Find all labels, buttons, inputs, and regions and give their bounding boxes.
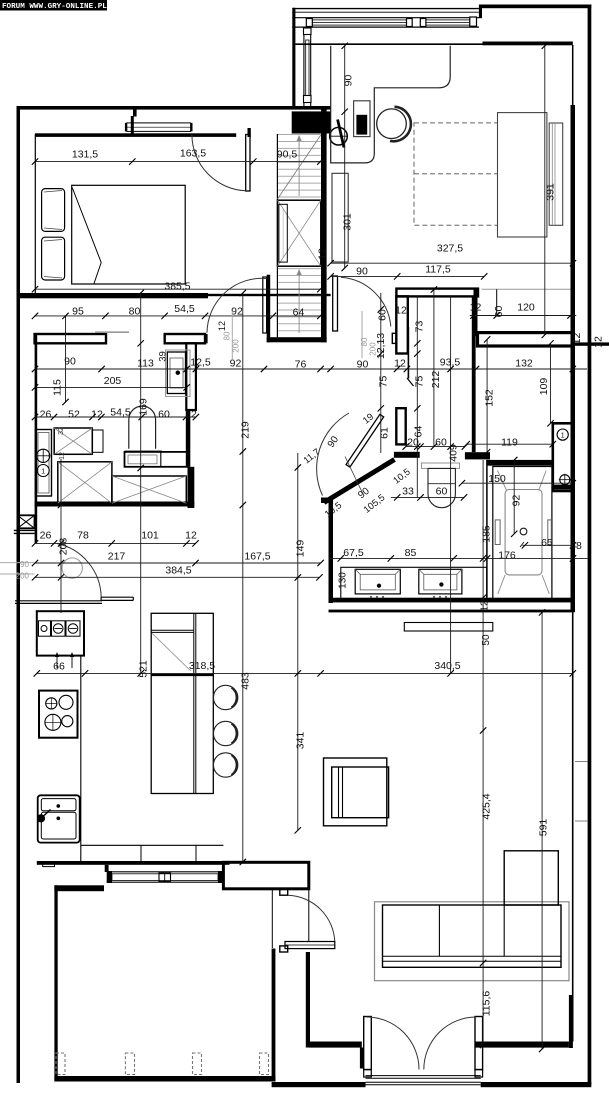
svg-text:167,5: 167,5 <box>244 551 270 563</box>
wall kitchen bottom stub <box>105 865 109 872</box>
svg-text:217: 217 <box>108 551 126 563</box>
svg-text:169: 169 <box>138 398 150 416</box>
dim v 149/341 <box>295 453 307 834</box>
wall left inner face bath <box>35 334 38 544</box>
svg-text:60: 60 <box>435 436 447 448</box>
svg-text:95: 95 <box>72 306 84 318</box>
wall terrace door jamb line A <box>271 889 273 948</box>
svg-text:101: 101 <box>141 530 159 542</box>
svg-text:54,5: 54,5 <box>110 407 131 419</box>
svg-text:64: 64 <box>293 307 305 319</box>
dim row 65 <box>522 537 577 549</box>
toilet1 <box>125 406 162 451</box>
dim row 119 <box>464 437 557 449</box>
svg-text:12: 12 <box>185 530 197 542</box>
svg-text:60: 60 <box>158 409 170 421</box>
wall bath1 top T piece <box>165 334 207 343</box>
vanity sink1 <box>355 569 400 594</box>
svg-text:54,5: 54,5 <box>174 303 195 315</box>
wall corner right inner <box>569 995 573 1048</box>
dim row 384,5 <box>32 565 323 581</box>
svg-text:200: 200 <box>232 339 241 353</box>
window living bottom sill <box>366 1076 481 1085</box>
svg-text:12: 12 <box>470 302 482 314</box>
window terrace <box>107 871 224 883</box>
wall top-right exterior <box>479 5 591 19</box>
bathtub inner <box>498 471 550 594</box>
toilet2 tank line <box>422 463 460 468</box>
wall kitchen bottom <box>37 861 230 865</box>
bath2 partition line <box>486 460 488 598</box>
title bar <box>0 0 107 11</box>
svg-text:73: 73 <box>414 321 426 333</box>
wall bathroom left <box>329 498 334 604</box>
dim v 219/483 <box>240 290 252 865</box>
wall stairs bottom <box>267 337 327 342</box>
armchair outer <box>324 758 387 826</box>
door wc leaf ajar <box>407 327 414 386</box>
wall line x496 <box>496 289 498 315</box>
shelf line above vanity <box>95 331 129 333</box>
dim row 95-80-54,5-92-64 <box>32 303 324 319</box>
dim row 327,5 <box>327 243 576 267</box>
desk chair <box>377 107 411 142</box>
wc1 cabinet <box>36 430 52 497</box>
fridge knob lines <box>55 628 77 630</box>
svg-text:52: 52 <box>68 409 80 421</box>
bed2 frame <box>498 113 547 237</box>
island divider vertical <box>194 613 196 793</box>
wall terrace right face A <box>272 949 276 1082</box>
wall terrace door jamb line B <box>308 889 310 941</box>
living shelf <box>404 623 493 632</box>
couch chaise <box>504 851 558 905</box>
door french right post <box>475 1017 483 1078</box>
toilet2 <box>428 468 455 507</box>
svg-text:60: 60 <box>436 486 448 498</box>
bathtub rail right <box>548 520 552 545</box>
dim row 90/117,5 <box>327 264 487 280</box>
stairs upper flight <box>278 135 321 198</box>
wall wc right <box>472 296 476 452</box>
door wc hinge notch <box>392 333 396 343</box>
door bedroom1 leaf <box>246 135 250 192</box>
armchair seat <box>332 767 389 818</box>
svg-text:521: 521 <box>138 660 150 678</box>
bed2 headboard <box>549 123 563 225</box>
svg-text:92: 92 <box>511 495 523 507</box>
svg-text:90: 90 <box>357 359 369 371</box>
svg-text:39: 39 <box>158 351 169 362</box>
svg-text:90: 90 <box>356 266 368 278</box>
svg-text:163,5: 163,5 <box>180 148 206 160</box>
door bath2 dim leader <box>345 457 364 497</box>
wall bathroom left corner <box>321 498 333 504</box>
dim row 90-113-12,5 <box>32 356 587 373</box>
door hall leaf <box>333 276 338 331</box>
svg-text:176: 176 <box>498 550 516 562</box>
dim v 391 <box>542 43 557 339</box>
vanity sink2 <box>419 569 462 594</box>
dim v 152 <box>484 336 496 455</box>
svg-text:150: 150 <box>488 473 506 485</box>
wall balcony top line <box>292 8 479 10</box>
svg-text:50: 50 <box>481 634 492 646</box>
svg-text:208: 208 <box>58 538 70 556</box>
svg-text:149: 149 <box>295 540 307 558</box>
wall bathroom bottom outer line <box>329 610 575 613</box>
hob burners <box>45 695 73 730</box>
couch rug outline <box>375 902 570 981</box>
stairs arrow lower <box>297 269 302 333</box>
svg-text:33: 33 <box>402 486 414 498</box>
wall terrace top left <box>54 885 104 891</box>
wall pier between balcony and stairs <box>292 111 331 133</box>
svg-text:185: 185 <box>481 525 493 543</box>
door terrace-living hinge box <box>280 946 288 952</box>
svg-text:132: 132 <box>515 358 533 370</box>
dim row 12-60-120 <box>470 302 576 319</box>
basin1 <box>166 350 191 397</box>
dim row 66-318,5-340,5 <box>34 660 576 677</box>
fridge cabinet <box>37 611 84 655</box>
svg-text:90,5: 90,5 <box>277 149 298 161</box>
wall over bathtub <box>487 460 553 466</box>
dim v 409 <box>447 296 459 676</box>
porch step <box>43 863 55 867</box>
svg-text:115: 115 <box>52 379 64 396</box>
wall terrace bottom <box>54 1076 275 1082</box>
terrace column 3 <box>193 1053 202 1075</box>
svg-text:12: 12 <box>59 452 66 460</box>
hall shelf <box>332 173 348 262</box>
island chair 1 <box>213 685 237 709</box>
island chair 3 <box>213 753 237 777</box>
wall living outer bottom right <box>481 1082 592 1087</box>
closet X box2 <box>112 476 186 503</box>
dim row bath 67,5-85 <box>329 540 588 562</box>
wall wc left lower <box>396 408 405 444</box>
svg-text:61: 61 <box>379 427 391 439</box>
wall bedroom2 bottom band <box>396 289 478 297</box>
svg-text:66: 66 <box>53 661 65 673</box>
wall terrace right face B <box>306 952 310 1048</box>
wall block kitchen-living <box>223 862 308 889</box>
svg-text:92: 92 <box>231 306 243 318</box>
couch front edge <box>383 956 562 961</box>
wall living bottom left <box>309 1042 362 1048</box>
vanity sink1 dots <box>370 596 384 598</box>
door bedroom1 arc <box>192 134 246 190</box>
svg-text:68: 68 <box>570 540 582 552</box>
stairs left edge <box>276 134 278 342</box>
wall bedroom2 top <box>295 42 572 46</box>
svg-text:26: 26 <box>40 409 52 421</box>
svg-text:64: 64 <box>413 426 425 438</box>
svg-text:93,5: 93,5 <box>440 357 461 369</box>
svg-text:409: 409 <box>448 444 460 462</box>
arrows 66 <box>55 652 74 668</box>
dim v 60/75/61 <box>375 293 391 453</box>
svg-text:200: 200 <box>369 342 378 356</box>
wall bathroom bottom <box>329 598 573 603</box>
svg-text:205: 205 <box>104 375 122 387</box>
vanity counter <box>341 567 487 600</box>
island <box>151 613 213 793</box>
svg-text:65: 65 <box>541 537 553 549</box>
wall right exterior <box>588 5 592 1086</box>
svg-text:119: 119 <box>501 437 518 449</box>
wc1 basin <box>37 449 50 462</box>
marker bedroom2 door <box>360 311 378 358</box>
svg-text:1: 1 <box>561 433 565 440</box>
wall toilet niche stub <box>394 452 420 458</box>
svg-text:75: 75 <box>378 376 390 388</box>
svg-text:78: 78 <box>77 530 89 542</box>
wall band2 thin continuation <box>482 288 571 290</box>
stairs lower flight <box>278 269 321 331</box>
dim row 20-60 <box>403 436 469 450</box>
svg-text:12: 12 <box>571 333 583 345</box>
wall step between bands <box>474 289 478 337</box>
svg-text:32: 32 <box>58 427 65 435</box>
svg-text:212: 212 <box>430 371 442 389</box>
desk drawer unit <box>354 101 370 137</box>
door french arc right <box>424 1017 477 1070</box>
wall living bottom right <box>475 1042 569 1048</box>
bed1 frame <box>72 185 186 284</box>
bed1 blanket fold <box>72 188 101 284</box>
svg-text:318,5: 318,5 <box>189 660 215 672</box>
wall band2 to right wall <box>478 333 573 346</box>
door bath2 arc <box>317 413 349 496</box>
svg-text:1: 1 <box>41 469 45 476</box>
svg-text:80: 80 <box>223 331 232 340</box>
dim row 217/167,5 <box>32 551 324 567</box>
dim row 26-52-12-54,5-60-12 <box>32 407 199 421</box>
svg-text:76: 76 <box>295 359 307 371</box>
kitchen bottom counter <box>81 845 224 861</box>
svg-text:60: 60 <box>493 306 505 318</box>
dim row 385,5 <box>32 281 324 293</box>
wall band2 extension right <box>573 342 609 345</box>
door french arc left <box>367 1017 420 1070</box>
svg-text:90: 90 <box>343 75 355 87</box>
svg-text:425,4: 425,4 <box>481 793 493 819</box>
dim v 90/301 <box>342 43 355 272</box>
wall left inner face bedroom1 <box>34 134 36 293</box>
svg-text:12: 12 <box>480 600 491 612</box>
svg-text:385,5: 385,5 <box>164 281 190 293</box>
island thick divider <box>151 674 213 676</box>
stairs mid wardrobe <box>278 200 321 266</box>
wall left exterior <box>17 106 21 1083</box>
bath1 bench <box>125 452 188 467</box>
svg-text:341: 341 <box>295 732 307 750</box>
wall kitchen low wall <box>15 601 102 604</box>
svg-text:92: 92 <box>230 358 242 370</box>
terrace column 1 <box>56 1053 65 1075</box>
window balcony top <box>292 12 479 27</box>
bathtub rail left <box>495 520 500 545</box>
svg-text:219: 219 <box>240 421 252 439</box>
wall bedroom1 bottom thin <box>208 294 331 296</box>
hob <box>39 691 78 738</box>
wall bedroom1 bottom thick <box>20 293 208 298</box>
window bedroom1 <box>35 123 251 137</box>
island chair 2 <box>213 721 237 745</box>
door corridor leaf <box>263 277 267 333</box>
wall boiler bottom <box>553 485 575 490</box>
wall stairs right <box>321 109 327 342</box>
pillow 2 <box>42 237 65 280</box>
dim v 92 tub <box>511 457 523 537</box>
kitchen sink <box>37 795 79 842</box>
desk <box>331 46 451 163</box>
wall toilet niche right <box>465 452 490 459</box>
dim row 26-78-101-12 <box>32 530 199 547</box>
svg-text:12: 12 <box>185 409 197 421</box>
svg-text:483: 483 <box>240 672 252 690</box>
dim row 205 <box>32 375 190 391</box>
svg-text:12: 12 <box>317 248 329 260</box>
closet small side <box>92 430 103 452</box>
window living right inner line <box>572 612 574 1041</box>
wall bath1 T leg <box>186 343 196 410</box>
island top section <box>151 630 194 671</box>
door corridor arc <box>207 278 267 332</box>
svg-text:152: 152 <box>484 389 496 407</box>
wall terrace left <box>54 885 57 1081</box>
svg-text:75: 75 <box>414 376 426 388</box>
dim v 185/425,4/115,6 <box>480 460 493 1048</box>
door bath2 leaf <box>346 414 384 467</box>
door french left post <box>364 1017 372 1078</box>
svg-text:12,5: 12,5 <box>190 357 211 369</box>
wall top-left exterior <box>17 106 331 110</box>
svg-text:117,5: 117,5 <box>425 264 451 276</box>
wall living bottom stub left <box>360 1048 364 1069</box>
svg-text:80: 80 <box>129 306 141 318</box>
door hall arc <box>341 277 391 326</box>
svg-text:131,5: 131,5 <box>72 149 98 161</box>
svg-text:67,5: 67,5 <box>343 547 364 559</box>
wall bath1 top left piece <box>35 334 106 343</box>
couch body <box>383 905 562 967</box>
svg-text:384,5: 384,5 <box>165 565 191 577</box>
svg-text:327,5: 327,5 <box>437 243 463 255</box>
svg-text:FORUM WWW.GRY-ONLINE.PL: FORUM WWW.GRY-ONLINE.PL <box>2 3 107 11</box>
marker entry door <box>0 560 35 581</box>
bathtub outer <box>493 467 552 600</box>
wall jog near bedroom window <box>131 109 137 134</box>
wall living outer bottom left <box>272 1082 366 1087</box>
svg-text:12: 12 <box>395 305 407 317</box>
door terrace-living leaf <box>285 942 335 949</box>
svg-text:340,5: 340,5 <box>434 660 460 672</box>
dim v 109 <box>538 340 554 426</box>
svg-text:26: 26 <box>40 530 52 542</box>
dim row 150 <box>459 473 576 486</box>
bathtub faucet <box>520 528 527 547</box>
armchair back lines <box>339 767 343 818</box>
terrace column 2 <box>125 1053 134 1075</box>
kitchen counter edge <box>80 656 82 861</box>
svg-text:60: 60 <box>377 309 389 321</box>
wall right inner upper line <box>572 45 574 105</box>
vanity sink2 dots <box>433 596 447 598</box>
svg-text:591: 591 <box>538 819 550 837</box>
closet X small <box>54 428 92 454</box>
dim v 591 <box>538 609 550 1052</box>
wall boiler closet <box>553 423 573 491</box>
closet X box1 <box>58 462 112 503</box>
wall bath1 T leg lower <box>186 410 191 467</box>
door entry leaf <box>101 597 133 600</box>
wall wc left upper <box>396 296 408 353</box>
wall right of closet2 <box>188 467 195 508</box>
svg-text:12: 12 <box>593 336 605 348</box>
dim row 33-60 <box>391 486 467 501</box>
wc1 marker circle <box>37 465 49 477</box>
door terrace-living arc <box>288 895 335 942</box>
couch dividers <box>439 905 504 956</box>
svg-text:12: 12 <box>394 358 406 370</box>
chimney flue <box>14 515 35 533</box>
marker corridor door <box>217 311 241 359</box>
svg-text:109: 109 <box>538 378 550 396</box>
entry knob circle <box>62 558 82 578</box>
wall balcony left <box>292 8 295 106</box>
window living right divisions <box>575 762 588 822</box>
door terrace-living top jamb <box>280 889 288 896</box>
terrace column 4 <box>260 1053 269 1075</box>
wall bathroom angled <box>324 460 395 503</box>
wall stairs left lower <box>267 275 271 343</box>
svg-text:113: 113 <box>137 358 154 370</box>
dim v 208 <box>58 459 70 613</box>
dim v 169/521 <box>138 290 150 678</box>
svg-text:200: 200 <box>16 572 30 581</box>
svg-text:85: 85 <box>405 547 417 559</box>
boiler valve <box>559 474 571 486</box>
stairs arrow upper <box>297 135 302 196</box>
svg-text:301: 301 <box>342 213 354 231</box>
svg-text:12: 12 <box>217 321 227 331</box>
door closer symbol at stairs <box>329 120 348 148</box>
bed2 duvet dashed <box>414 123 498 225</box>
stairs break line <box>278 135 321 199</box>
door entry arc <box>57 544 101 598</box>
dim v 115 <box>52 313 69 406</box>
svg-text:115,6: 115,6 <box>481 991 493 1017</box>
boiler marker 1 <box>557 429 568 440</box>
svg-text:130: 130 <box>338 572 349 589</box>
svg-text:391: 391 <box>545 183 557 201</box>
svg-text:120: 120 <box>517 302 535 314</box>
svg-text:12: 12 <box>91 409 103 421</box>
dim row bedroom1 window <box>32 148 324 165</box>
svg-text:90: 90 <box>20 560 29 569</box>
wall right inner <box>571 105 576 612</box>
dim v 73/75/64 <box>413 296 426 497</box>
fridge sections <box>39 621 81 636</box>
wall bath1 bottom <box>35 502 195 507</box>
pillow 1 <box>42 189 65 232</box>
window balcony left <box>304 27 312 106</box>
dim v 212 <box>430 286 442 450</box>
